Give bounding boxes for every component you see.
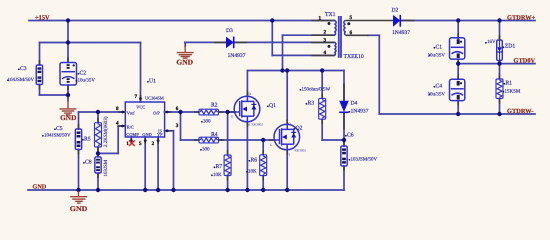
- svg-text:C4: C4: [436, 84, 443, 90]
- svg-text:300: 300: [203, 119, 211, 125]
- svg-text:GND: GND: [33, 184, 47, 191]
- svg-text:103JSM/50V: 103JSM/50V: [351, 157, 378, 163]
- svg-text:TX1: TX1: [325, 12, 336, 18]
- svg-text:R5: R5: [84, 137, 91, 143]
- svg-text:GND: GND: [60, 114, 76, 122]
- svg-text:7: 7: [135, 94, 138, 100]
- svg-text:150ohm/0.5W: 150ohm/0.5W: [302, 87, 331, 93]
- svg-text:6: 6: [176, 106, 179, 112]
- svg-text:10K: 10K: [248, 169, 257, 175]
- svg-text:5: 5: [139, 141, 142, 147]
- svg-text:C3: C3: [20, 66, 27, 72]
- svg-text:1N4937: 1N4937: [392, 30, 410, 36]
- svg-text:RK3802: RK3802: [295, 149, 307, 153]
- svg-text:C8: C8: [85, 160, 92, 166]
- svg-text:U1: U1: [149, 79, 156, 85]
- svg-text:S: S: [288, 153, 290, 157]
- svg-text:D4: D4: [351, 101, 358, 107]
- svg-text:GND: GND: [70, 205, 88, 213]
- svg-text:10u/35V: 10u/35V: [78, 78, 96, 84]
- svg-text:UC3845M: UC3845M: [145, 96, 164, 101]
- svg-text:GTDRW-: GTDRW-: [507, 108, 534, 115]
- svg-text:R2: R2: [211, 103, 218, 109]
- svg-text:R4: R4: [211, 132, 218, 138]
- svg-text:R1: R1: [506, 81, 513, 87]
- svg-text:RK3802: RK3802: [252, 123, 264, 127]
- svg-text:300: 300: [202, 147, 210, 153]
- svg-text:VCC: VCC: [136, 104, 145, 109]
- svg-text:GND: GND: [142, 132, 152, 137]
- svg-text:103JSM: 103JSM: [103, 159, 109, 176]
- svg-text:8: 8: [116, 106, 119, 112]
- svg-text:C6: C6: [347, 133, 354, 139]
- svg-text:1: 1: [319, 16, 322, 22]
- svg-text:C5: C5: [56, 126, 63, 132]
- svg-text:R6: R6: [251, 158, 258, 164]
- svg-text:Q2: Q2: [296, 126, 303, 132]
- svg-text:16V: 16V: [487, 39, 496, 45]
- svg-text:Q1: Q1: [269, 103, 276, 109]
- svg-text:15KSM: 15KSM: [505, 89, 521, 95]
- svg-text:D3: D3: [226, 28, 233, 34]
- svg-text:104JSM/50V: 104JSM/50V: [8, 77, 35, 83]
- svg-text:1N4937: 1N4937: [351, 109, 369, 115]
- svg-text:COMP: COMP: [126, 132, 139, 137]
- svg-text:GTDRW+: GTDRW+: [507, 14, 536, 21]
- svg-text:1: 1: [126, 141, 129, 147]
- svg-text:R/C: R/C: [127, 125, 134, 130]
- svg-text:R7: R7: [216, 164, 223, 170]
- svg-text:5: 5: [350, 15, 353, 21]
- svg-text:ZD1: ZD1: [505, 43, 516, 49]
- svg-text:O/P: O/P: [153, 111, 160, 116]
- svg-text:1N4937: 1N4937: [228, 53, 246, 59]
- svg-text:4: 4: [324, 50, 327, 56]
- svg-text:2: 2: [152, 141, 155, 147]
- svg-text:4: 4: [116, 121, 119, 127]
- svg-text:6: 6: [350, 30, 353, 36]
- svg-text:+15V: +15V: [35, 15, 50, 22]
- svg-text:3: 3: [176, 123, 179, 129]
- svg-text:IS: IS: [158, 129, 162, 134]
- svg-text:2.2KSM(0603): 2.2KSM(0603): [103, 116, 109, 147]
- svg-text:10K: 10K: [213, 172, 222, 178]
- svg-text:D2: D2: [392, 8, 399, 14]
- svg-text:S: S: [249, 123, 251, 127]
- svg-text:GTD0V: GTD0V: [514, 57, 536, 64]
- svg-text:10u/35V: 10u/35V: [428, 53, 446, 59]
- svg-text:3: 3: [324, 38, 327, 44]
- svg-text:104JSM/50V: 104JSM/50V: [44, 133, 71, 139]
- svg-text:TXEE10: TXEE10: [344, 54, 364, 60]
- svg-text:Vref: Vref: [127, 111, 135, 116]
- svg-text:GND: GND: [176, 58, 193, 66]
- svg-text:10u/35V: 10u/35V: [428, 92, 446, 98]
- svg-text:2: 2: [324, 30, 327, 36]
- svg-text:C2: C2: [80, 71, 87, 77]
- svg-text:R3: R3: [308, 101, 315, 107]
- svg-text:C1: C1: [436, 45, 443, 51]
